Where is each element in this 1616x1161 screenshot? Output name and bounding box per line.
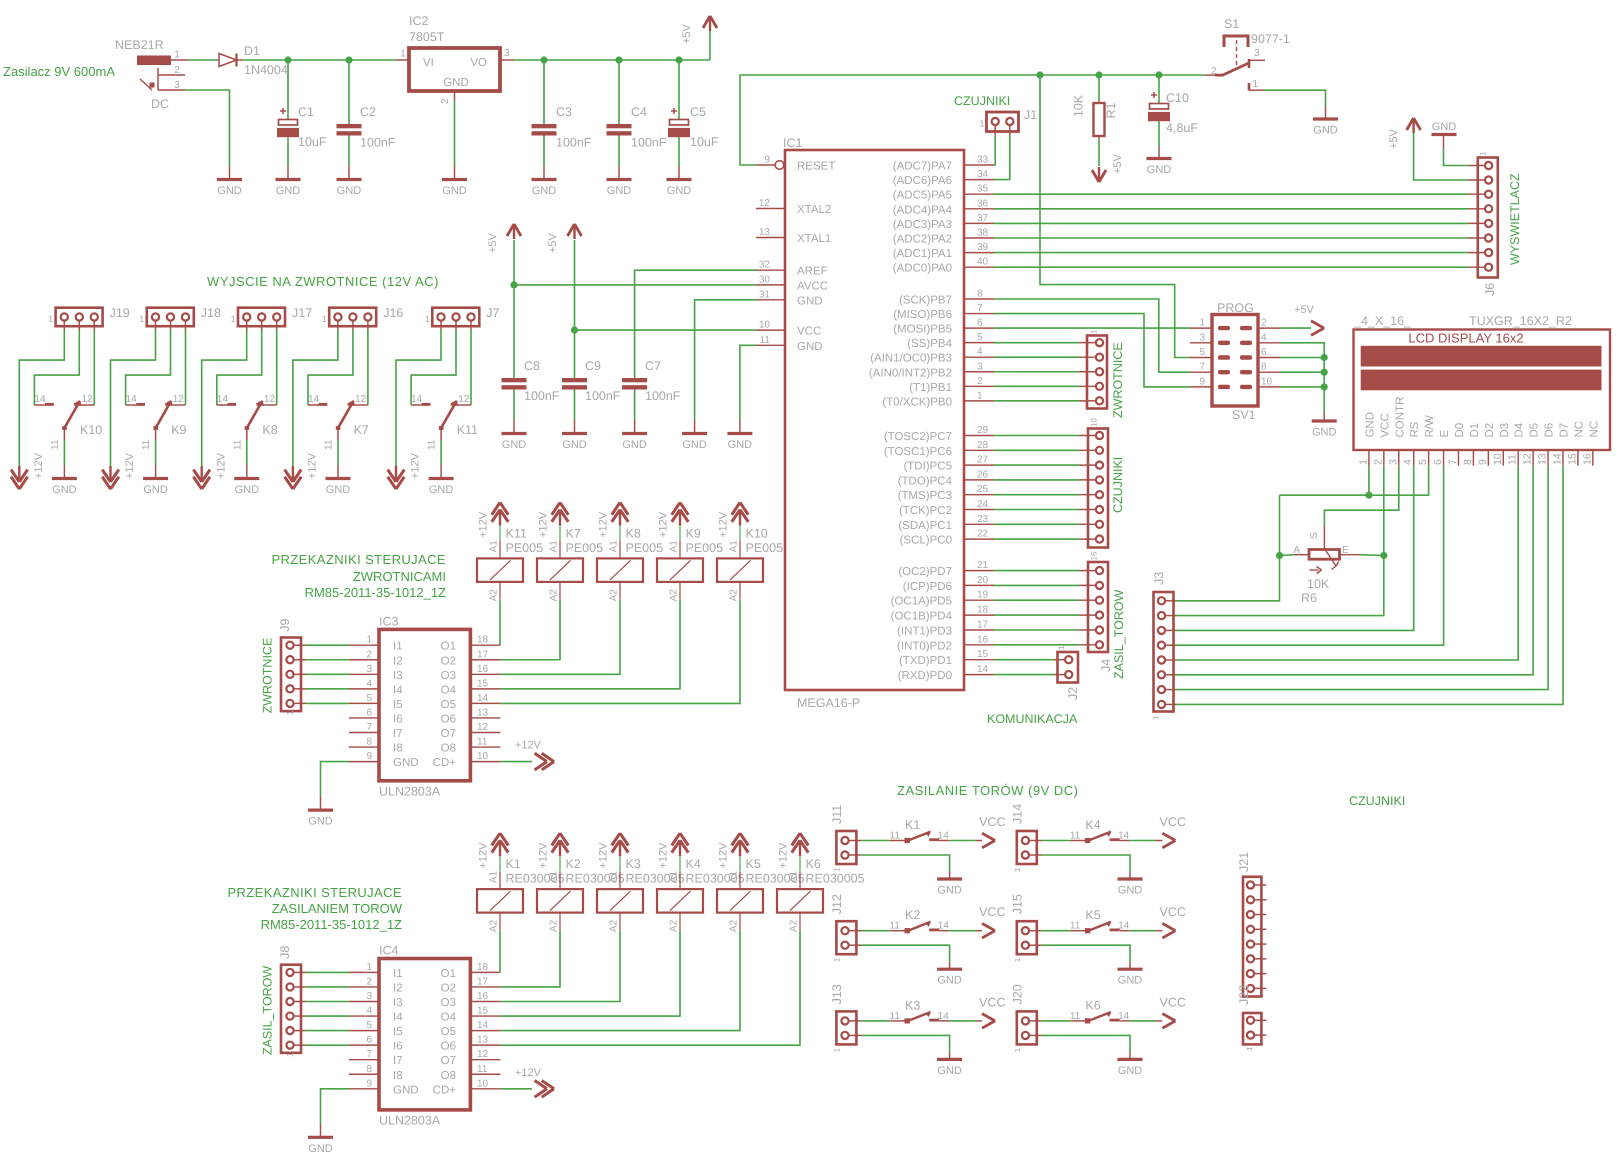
junction at C5 <box>675 56 682 63</box>
relay coil K3 RE030005 <box>619 856 621 872</box>
wire J7 pin3 to contact 12 <box>470 330 472 405</box>
svg-text:J7: J7 <box>486 306 499 320</box>
LCD pin 11 D4 <box>1517 450 1519 466</box>
svg-text:12: 12 <box>1522 453 1534 465</box>
svg-text:1: 1 <box>322 314 327 324</box>
capacitor C2 100nF <box>348 60 350 124</box>
svg-text:J8: J8 <box>278 946 292 959</box>
wire RESET net from IC1 to S1 <box>740 75 1205 165</box>
svg-text:(T1)PB1: (T1)PB1 <box>909 382 952 394</box>
junction VCC at R6 E <box>1380 552 1387 559</box>
svg-text:10: 10 <box>477 1078 489 1089</box>
wire IC1 PD7 to ZASIL_TOROW header pin 1 <box>994 570 1079 572</box>
svg-text:O1: O1 <box>441 641 456 653</box>
svg-text:+12V: +12V <box>598 842 610 869</box>
svg-text:14: 14 <box>1118 1011 1130 1022</box>
IC1 pin 28 (TOSC1)PC6 <box>964 449 994 451</box>
IC4 pin 14 O5 <box>470 1030 500 1032</box>
wire IC1 PA1 to J6 pin 7 <box>994 252 1468 254</box>
IC3 pin 11 O8 <box>470 746 500 748</box>
svg-text:ZASILANIE TORÓW (9V DC): ZASILANIE TORÓW (9V DC) <box>897 783 1079 798</box>
SV1 pin 3 <box>1190 342 1212 344</box>
IC4 pin 2 I2 <box>349 986 379 988</box>
junction SV1 pin8 gnd <box>1321 369 1328 376</box>
svg-text:O2: O2 <box>441 655 456 667</box>
IC3 pin 14 O5 <box>470 702 500 704</box>
svg-text:+12V: +12V <box>124 452 136 479</box>
svg-text:D1: D1 <box>1469 423 1481 438</box>
capacitor C8 100nF <box>513 285 515 378</box>
svg-text:13: 13 <box>477 707 489 718</box>
junction at C1 <box>284 56 291 63</box>
potentiometer R6 10K <box>1323 525 1325 550</box>
IC1 pin 8 (SCK)PB7 <box>964 298 994 300</box>
svg-text:D7: D7 <box>1558 423 1570 438</box>
svg-text:5: 5 <box>1417 459 1429 465</box>
svg-text:O5: O5 <box>441 699 456 711</box>
wire IC2 GND pin to ground <box>454 101 456 166</box>
svg-text:12: 12 <box>759 198 771 209</box>
svg-text:GND: GND <box>728 439 753 451</box>
svg-text:CZUJNIKI: CZUJNIKI <box>1349 794 1405 808</box>
wire IC1 PA0 to J6 pin 8 <box>994 266 1468 268</box>
wire K11 A2 to IC3 O1 <box>499 600 501 645</box>
svg-text:29: 29 <box>977 425 989 436</box>
svg-text:11: 11 <box>427 439 438 450</box>
svg-text:23: 23 <box>977 514 989 525</box>
ground under C8 <box>513 420 515 434</box>
wire K2 A2 to IC4 O2 <box>500 931 560 987</box>
svg-text:(SDA)PC1: (SDA)PC1 <box>898 520 952 532</box>
wire J19 pin3 to contact 12 <box>93 330 95 405</box>
LCD pin 13 D6 <box>1547 450 1549 466</box>
svg-text:+5V: +5V <box>1294 304 1315 316</box>
svg-text:K7: K7 <box>566 526 581 540</box>
svg-text:A2: A2 <box>609 919 620 932</box>
svg-text:13: 13 <box>1537 453 1549 465</box>
ground under IC4 <box>320 1124 322 1138</box>
wire K8 A2 to IC3 O3 <box>500 600 620 674</box>
svg-text:ZASIL_TOROW: ZASIL_TOROW <box>261 966 275 1056</box>
IC1 pin 18 (OC1B)PD4 <box>964 614 994 616</box>
wire IC1 PA5 to J6 pin 3 <box>994 193 1468 195</box>
IC4 pin 5 I5 <box>349 1030 379 1032</box>
wire IC1 PD2 to ZASIL_TOROW header pin 6 <box>994 644 1079 646</box>
+12V supply arrow above K3 <box>612 833 620 845</box>
svg-text:2: 2 <box>366 976 372 987</box>
wire IC1 PC4 to CZUJNIKI header pin 4 <box>994 479 1079 481</box>
svg-text:3: 3 <box>504 48 510 59</box>
svg-text:GND: GND <box>235 484 260 496</box>
wire J7 pin2 to contact 14 <box>411 330 456 405</box>
svg-text:16: 16 <box>1090 551 1099 560</box>
svg-text:5: 5 <box>366 693 372 704</box>
svg-text:14: 14 <box>411 394 423 405</box>
svg-text:GND: GND <box>937 885 962 897</box>
svg-text:3: 3 <box>366 991 372 1002</box>
svg-text:J20: J20 <box>1010 984 1024 1004</box>
svg-text:GND: GND <box>326 484 351 496</box>
svg-text:GND: GND <box>217 185 242 197</box>
svg-text:100nF: 100nF <box>360 136 396 150</box>
ground under IC1 pin11 <box>739 420 741 434</box>
wire J17 pin1 to +12V arrow <box>202 330 247 466</box>
svg-text:_4_X_16_: _4_X_16_ <box>1353 314 1412 328</box>
ground under K10 <box>63 465 65 479</box>
svg-text:GND: GND <box>1118 885 1143 897</box>
svg-text:GND: GND <box>276 185 301 197</box>
wire J9 pin 3 to IC3 I3 <box>306 673 349 675</box>
svg-text:R6: R6 <box>1301 591 1317 605</box>
svg-text:K2: K2 <box>905 908 920 922</box>
svg-text:11: 11 <box>477 737 488 748</box>
wire IC1 MISO to SV1 pin9 <box>994 314 1190 387</box>
IC1 pin 6 (MOSI)PB5 <box>964 327 994 329</box>
IC3 pin 8 I8 <box>349 746 379 748</box>
svg-text:A2: A2 <box>729 919 740 932</box>
IC3 pin 18 O1 <box>470 644 500 646</box>
svg-text:100nF: 100nF <box>631 136 667 150</box>
svg-text:K9: K9 <box>686 526 701 540</box>
svg-text:+12V: +12V <box>598 511 610 538</box>
wire J12 pin2 to ground <box>861 945 949 962</box>
svg-text:RM85-2011-35-1012_1Z: RM85-2011-35-1012_1Z <box>261 917 402 932</box>
IC1 pin 31 GND <box>756 299 785 301</box>
svg-text:GND: GND <box>607 185 632 197</box>
svg-text:(ADC5)PA5: (ADC5)PA5 <box>893 190 952 202</box>
svg-text:12: 12 <box>458 394 470 405</box>
wire J20 pin1 to switch K6 <box>1042 1020 1070 1022</box>
svg-text:Zasilacz 9V 600mA: Zasilacz 9V 600mA <box>3 64 115 79</box>
svg-text:R1: R1 <box>1104 102 1118 118</box>
svg-text:1: 1 <box>285 710 295 715</box>
wire IC1 GND pin11 to ground <box>740 345 756 420</box>
svg-text:38: 38 <box>977 228 989 239</box>
svg-text:A1: A1 <box>729 540 740 553</box>
IC4 pin 16 O3 <box>470 1001 500 1003</box>
+12V supply arrow above K1 <box>492 833 500 845</box>
wire J9 pin 4 to IC3 I4 <box>306 688 349 690</box>
wire J16 pin3 to contact 12 <box>367 330 369 405</box>
svg-text:K9: K9 <box>171 423 186 437</box>
svg-text:4: 4 <box>977 347 983 358</box>
svg-text:1: 1 <box>230 314 235 324</box>
ground under K9 <box>155 465 157 479</box>
svg-text:J4: J4 <box>1099 659 1113 672</box>
LCD pin 6 E <box>1443 450 1445 466</box>
svg-text:CD+: CD+ <box>433 757 457 769</box>
svg-text:O3: O3 <box>441 997 456 1009</box>
wire IC4 GND pin to ground <box>321 1089 350 1124</box>
LCD pin 1 GND <box>1368 450 1370 466</box>
svg-text:I4: I4 <box>393 1012 403 1024</box>
svg-text:RS: RS <box>1409 421 1421 437</box>
svg-text:6: 6 <box>1261 347 1267 358</box>
svg-text:11: 11 <box>141 439 152 450</box>
svg-text:17: 17 <box>477 649 489 660</box>
svg-text:3: 3 <box>1254 48 1260 59</box>
ground under C5 <box>678 166 680 180</box>
IC1 pin 12 XTAL2 <box>756 208 785 210</box>
svg-text:J2: J2 <box>1066 687 1080 700</box>
svg-text:IC3: IC3 <box>379 614 399 628</box>
wire J8 pin 5 to IC4 I5 <box>306 1030 349 1032</box>
svg-text:24: 24 <box>977 499 989 510</box>
svg-text:K6: K6 <box>1085 998 1100 1012</box>
svg-text:(SCL)PC0: (SCL)PC0 <box>900 535 952 547</box>
connector J6 display <box>1478 158 1498 278</box>
IC1 pin 32 AREF <box>756 269 785 271</box>
svg-text:30: 30 <box>759 274 771 285</box>
svg-text:(T0/XCK)PB0: (T0/XCK)PB0 <box>882 396 952 408</box>
svg-text:1: 1 <box>174 50 180 61</box>
svg-text:4: 4 <box>1261 332 1267 343</box>
wire J18 pin1 to +12V arrow <box>111 330 156 466</box>
svg-text:(ADC2)PA2: (ADC2)PA2 <box>893 234 952 246</box>
ground under IC1 pin31 <box>694 420 696 434</box>
svg-text:GND: GND <box>797 341 823 353</box>
ground under J14 <box>1129 872 1131 879</box>
svg-text:A1: A1 <box>609 540 620 553</box>
IC3 pin 17 O2 <box>470 659 500 661</box>
svg-text:16: 16 <box>477 664 489 675</box>
svg-text:15: 15 <box>477 678 489 689</box>
svg-text:K10: K10 <box>80 423 102 437</box>
svg-text:(OC1A)PD5: (OC1A)PD5 <box>891 596 952 608</box>
LCD pin 7 D0 <box>1457 450 1459 466</box>
svg-text:+12V: +12V <box>538 511 550 538</box>
svg-text:O6: O6 <box>441 1041 456 1053</box>
svg-text:K4: K4 <box>1085 818 1100 832</box>
svg-text:11: 11 <box>50 439 61 450</box>
svg-text:RESET: RESET <box>797 161 835 173</box>
svg-text:AREF: AREF <box>797 266 828 278</box>
IC1 pin 1 (T0/XCK)PB0 <box>964 400 994 402</box>
wire J3 pin7 to LCD D6 <box>1176 466 1549 690</box>
IC3 pin 13 O6 <box>470 717 500 719</box>
IC3 pin 16 O3 <box>470 673 500 675</box>
SV1 pin 1 <box>1190 327 1212 329</box>
svg-text:VCC: VCC <box>1160 995 1186 1009</box>
svg-text:K8: K8 <box>262 423 277 437</box>
svg-text:9077-1: 9077-1 <box>1251 32 1290 46</box>
svg-text:GND: GND <box>1313 125 1338 137</box>
svg-text:I5: I5 <box>393 1026 403 1038</box>
IC4 pin 10 CD+ <box>470 1088 500 1090</box>
svg-text:CONTR: CONTR <box>1394 397 1406 438</box>
svg-text:21: 21 <box>977 560 989 571</box>
IC1 pin 11 GND <box>756 344 785 346</box>
svg-text:4: 4 <box>1402 459 1414 465</box>
svg-text:5: 5 <box>1199 347 1205 358</box>
svg-text:17: 17 <box>477 976 489 987</box>
svg-text:ZWROTNICAMI: ZWROTNICAMI <box>353 569 446 584</box>
wire IC1 TXD to J2 pin1 <box>994 659 1054 661</box>
svg-text:(ADC1)PA1: (ADC1)PA1 <box>893 248 952 260</box>
svg-text:WYSWIETLACZ: WYSWIETLACZ <box>1508 173 1522 265</box>
svg-text:(ADC6)PA6: (ADC6)PA6 <box>893 175 952 187</box>
wire K4 A2 to IC4 O4 <box>500 931 680 1016</box>
svg-text:C7: C7 <box>645 359 661 373</box>
svg-text:3: 3 <box>174 80 180 91</box>
svg-text:A1: A1 <box>549 540 560 553</box>
svg-text:I6: I6 <box>393 713 403 725</box>
svg-text:100nF: 100nF <box>556 136 592 150</box>
wire J18 pin3 to contact 12 <box>185 330 187 405</box>
ground under J15 <box>1129 962 1131 969</box>
svg-text:XTAL1: XTAL1 <box>797 233 831 245</box>
svg-text:GND: GND <box>337 185 362 197</box>
+5V arrow for display <box>1407 118 1414 130</box>
wire J9 pin 1 to IC3 I1 <box>306 644 349 646</box>
svg-text:3: 3 <box>977 361 983 372</box>
svg-text:O5: O5 <box>441 1026 456 1038</box>
+12V supply arrow above K10 <box>732 503 740 515</box>
capacitor C3 100nF <box>543 60 545 124</box>
svg-text:PRZEKAZNIKI STERUJACE: PRZEKAZNIKI STERUJACE <box>271 552 446 567</box>
svg-text:9: 9 <box>366 1078 372 1089</box>
svg-text:A2: A2 <box>549 589 560 602</box>
svg-text:(TDO)PC4: (TDO)PC4 <box>898 475 953 487</box>
+12V supply arrow above K6 <box>792 833 800 845</box>
svg-text:PE005: PE005 <box>686 541 724 555</box>
LCD pin 3 CONTR <box>1398 450 1400 466</box>
wire IC1 PC2 to CZUJNIKI header pin 6 <box>994 509 1079 511</box>
svg-text:2: 2 <box>1261 318 1267 329</box>
IC1 pin 20 (ICP)PD6 <box>964 584 994 586</box>
svg-text:ZWROTNICE: ZWROTNICE <box>1111 342 1125 418</box>
+12V supply arrow above K7 <box>552 503 560 515</box>
wire IC1 RXD to J2 pin2 <box>994 674 1054 676</box>
svg-text:1: 1 <box>1245 1046 1254 1051</box>
wire K9 pin11 to ground <box>155 440 157 465</box>
+12V supply arrow J18 <box>102 477 110 489</box>
svg-text:VO: VO <box>470 57 487 69</box>
svg-text:(RXD)PD0: (RXD)PD0 <box>898 670 952 682</box>
IC4 pin 17 O2 <box>470 986 500 988</box>
relay coil K1 RE030005 <box>499 856 501 872</box>
svg-text:1: 1 <box>832 1047 841 1052</box>
wire J3 pin4 to LCD E <box>1176 466 1444 646</box>
IC1 pin 9 RESET <box>756 164 775 166</box>
connector J10 CZUJNIKI header <box>1088 429 1108 548</box>
svg-text:+12V: +12V <box>410 452 422 479</box>
wire IC2 VO +5V rail <box>514 59 710 61</box>
svg-text:10: 10 <box>759 320 771 331</box>
svg-text:ULN2803A: ULN2803A <box>379 784 441 798</box>
svg-text:2: 2 <box>1372 459 1384 465</box>
svg-text:(TOSC2)PC7: (TOSC2)PC7 <box>884 431 952 443</box>
+5V arrow at SV1 pin2 <box>1280 327 1311 329</box>
wire J17 pin3 to contact 12 <box>276 330 278 405</box>
svg-text:28: 28 <box>977 440 989 451</box>
svg-text:+5V: +5V <box>681 23 693 44</box>
svg-text:J14: J14 <box>1010 804 1024 824</box>
svg-text:MEGA16-P: MEGA16-P <box>797 696 860 710</box>
svg-text:6: 6 <box>977 318 983 329</box>
svg-text:IC1: IC1 <box>783 136 803 150</box>
svg-text:ULN2803A: ULN2803A <box>379 1114 441 1128</box>
svg-text:O3: O3 <box>441 670 456 682</box>
svg-text:J18: J18 <box>201 306 221 320</box>
wire IC1 SCK to SV1 pin7 <box>994 299 1190 372</box>
svg-text:GND: GND <box>667 185 692 197</box>
wire J15 pin2 to ground <box>1042 945 1130 962</box>
svg-text:1: 1 <box>1013 1047 1022 1052</box>
wire IC1 PC1 to CZUJNIKI header pin 7 <box>994 523 1079 525</box>
+12V supply arrow J7 <box>388 477 396 489</box>
wire IC1 GND pin31 to ground <box>695 300 756 420</box>
svg-text:14: 14 <box>938 830 950 841</box>
svg-text:14: 14 <box>477 1020 489 1031</box>
LCD pin 15 NC <box>1577 450 1579 466</box>
wire J15 pin1 to switch K5 <box>1042 930 1070 932</box>
wire AVCC to +5V and C8 <box>514 284 756 286</box>
IC4 pin 1 I1 <box>349 971 379 973</box>
svg-text:GND: GND <box>1147 164 1172 176</box>
wire J14 pin2 to ground <box>1042 855 1130 872</box>
SV1 pin 7 <box>1190 371 1212 373</box>
svg-text:6: 6 <box>366 707 372 718</box>
wire J9 pin 2 to IC3 I2 <box>306 659 349 661</box>
svg-text:9: 9 <box>1199 376 1205 387</box>
svg-text:10: 10 <box>1090 418 1099 427</box>
svg-text:27: 27 <box>977 455 989 466</box>
svg-text:32: 32 <box>759 260 771 271</box>
svg-text:K4: K4 <box>686 857 701 871</box>
svg-text:K10: K10 <box>746 526 768 540</box>
svg-text:RM85-2011-35-1012_1Z: RM85-2011-35-1012_1Z <box>305 585 446 600</box>
svg-text:+12V: +12V <box>718 511 730 538</box>
svg-text:1: 1 <box>832 957 841 962</box>
svg-text:25: 25 <box>977 484 989 495</box>
wire K9 A2 to IC3 O4 <box>500 600 680 689</box>
svg-text:35: 35 <box>977 184 989 195</box>
svg-text:2: 2 <box>174 65 180 76</box>
wire IC1 PA2 to J6 pin 6 <box>994 237 1468 239</box>
svg-text:16: 16 <box>1581 453 1593 465</box>
svg-text:1: 1 <box>1479 151 1488 156</box>
IC4 pin 6 I6 <box>349 1044 379 1046</box>
svg-text:1: 1 <box>1013 867 1022 872</box>
svg-text:4: 4 <box>366 678 372 689</box>
svg-text:D5: D5 <box>1529 423 1541 438</box>
VCC arrow at K6 <box>1130 1020 1156 1022</box>
wire SV1 ground pins <box>1280 343 1324 412</box>
ground under K11 <box>440 465 442 479</box>
IC4 pin 7 I7 <box>349 1059 379 1061</box>
ground under C1 <box>287 166 289 180</box>
+5V supply arrow below R1 <box>1092 170 1099 182</box>
svg-text:13: 13 <box>759 227 771 238</box>
wire J13 pin2 to ground <box>861 1035 949 1052</box>
IC4 pin 4 I4 <box>349 1015 379 1017</box>
svg-text:2: 2 <box>977 376 983 387</box>
svg-text:K3: K3 <box>626 857 641 871</box>
IC1 pin 3 (AIN0/INT2)PB2 <box>964 371 994 373</box>
svg-text:33: 33 <box>977 155 989 166</box>
wire J19 pin1 to +12V arrow <box>19 330 64 466</box>
svg-text:C3: C3 <box>556 105 572 119</box>
svg-text:1: 1 <box>977 390 983 401</box>
svg-text:ZASIL_TOROW: ZASIL_TOROW <box>1112 589 1126 679</box>
svg-text:K5: K5 <box>1085 908 1100 922</box>
relay coil K10 PE005 <box>739 525 741 541</box>
svg-text:VCC: VCC <box>1379 413 1391 437</box>
svg-text:+12V: +12V <box>307 452 319 479</box>
IC3 pin 15 O4 <box>470 688 500 690</box>
svg-text:J19: J19 <box>110 306 130 320</box>
